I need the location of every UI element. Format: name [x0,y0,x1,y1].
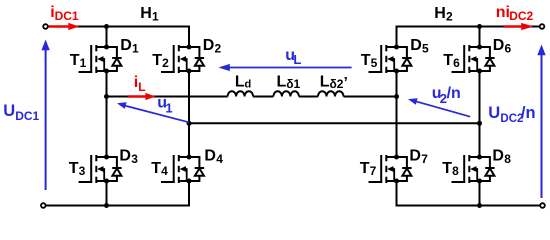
node T2 drain [187,45,192,50]
svg-text:T: T [442,160,452,177]
svg-text:DC2: DC2 [509,9,533,23]
transistor T5 [369,45,397,73]
svg-text:D: D [492,148,504,165]
node T8 drain [477,155,482,160]
terminal DC2 plus [540,24,545,29]
node H1 top leg1 junction [104,24,109,29]
diode D7 [397,157,412,181]
node T3 drain [104,155,109,160]
svg-text:1: 1 [165,100,172,115]
svg-text:1: 1 [152,10,159,24]
svg-text:4: 4 [161,164,168,178]
svg-text:T: T [70,52,80,69]
svg-text:δ2: δ2 [330,77,344,91]
node T1 drain [104,45,109,50]
wire H2 leg1 middle [396,71,398,157]
diode D6 [480,47,495,71]
voltage arrow uL [230,67,352,69]
node T6 source [477,69,482,74]
voltage arrow u2n [417,102,471,117]
node T5 source [394,69,399,74]
svg-text:5: 5 [422,42,429,56]
svg-text:D: D [120,37,132,54]
node T8 source [477,179,482,184]
svg-text:T: T [360,160,370,177]
node H2 top leg2 junction [477,24,482,29]
svg-text:U: U [488,104,500,122]
wire H1 bottom rail [46,181,189,206]
svg-text:6: 6 [453,56,460,70]
current arrow iL [128,95,146,97]
svg-text:1: 1 [132,42,139,56]
svg-text:L: L [138,80,145,94]
transistor T7 [369,155,397,183]
node T6 drain [477,45,482,50]
transistor T4 [161,155,189,183]
svg-text:H: H [140,5,152,22]
svg-text:D: D [203,37,215,54]
diode D8 [480,157,495,181]
svg-text:D: D [409,148,421,165]
wire H1 leg1 middle [106,71,108,157]
node T2 source [187,69,192,74]
svg-text:DC1: DC1 [55,9,79,23]
svg-text:8: 8 [452,164,459,178]
voltage arrow UDC2n [541,54,543,198]
svg-text:T: T [152,52,162,69]
svg-text:7: 7 [370,164,377,178]
diode D1 [107,47,122,71]
svg-text:2: 2 [215,42,222,56]
svg-text:6: 6 [505,42,512,56]
transistor T8 [452,155,480,183]
transistor T2 [161,45,189,73]
svg-text:2: 2 [446,10,453,24]
svg-text:7: 7 [421,152,428,166]
wire H1 leg1 lower [106,181,108,206]
current arrow iDC1 [49,25,70,27]
wire H2 leg2 middle [479,71,481,157]
node D lower AC at H2 leg2 [477,121,482,126]
current arrow niDC2 [504,25,523,27]
svg-text:3: 3 [79,164,86,178]
wire H1 leg1 upper [106,27,108,48]
svg-text:L: L [235,74,245,91]
svg-text:’: ’ [344,74,348,91]
svg-text:T: T [443,52,453,69]
node B lower AC at H1 leg2 [187,121,192,126]
node H1 bottom leg1 junction [104,203,109,208]
svg-text:3: 3 [131,152,138,166]
terminal DC2 minus [540,203,545,208]
node T4 drain [187,155,192,160]
inductor Ldelta2p [318,91,344,96]
voltage arrow UDC1 [45,49,47,190]
node T7 drain [394,155,399,160]
svg-text:T: T [69,160,79,177]
wire AC upper link [107,96,228,98]
inductor Ld [228,91,254,96]
terminal DC1 plus [43,24,48,29]
diode D5 [397,47,412,71]
node T5 drain [394,45,399,50]
svg-text:L: L [293,52,301,67]
svg-text:1: 1 [80,56,87,70]
node A upper AC at H1 leg1 [104,94,109,99]
svg-text:2: 2 [162,56,169,70]
inductor Ldelta1 [273,91,299,96]
svg-text:L: L [320,74,330,91]
node H2 bottom leg2 junction [477,203,482,208]
svg-text:5: 5 [371,56,378,70]
svg-text:DC1: DC1 [15,109,39,123]
transistor T1 [79,45,107,73]
svg-text:D: D [204,148,216,165]
voltage arrow u1 [126,106,190,123]
node T3 source [104,179,109,184]
svg-text:L: L [277,74,287,91]
node C upper AC at H2 leg1 [394,94,399,99]
node T1 source [104,69,109,74]
svg-text:T: T [151,160,161,177]
svg-text:D: D [119,148,131,165]
svg-text:d: d [245,79,252,91]
terminal DC1 minus [41,203,46,208]
svg-text:H: H [434,5,446,22]
svg-text:/n: /n [521,104,536,122]
wire H2 bottom rail [397,181,541,206]
wire H1 leg2 middle [188,71,190,157]
svg-text:δ1: δ1 [286,77,300,91]
wire H1 top rail [48,27,189,48]
svg-text:U: U [3,102,15,120]
wire H2 leg2 upper [479,27,481,48]
node T7 source [394,179,399,184]
svg-text:ni: ni [496,4,510,21]
wire H2 top rail [397,27,540,48]
diode D2 [189,47,204,71]
diode D4 [189,157,204,181]
svg-text:8: 8 [504,152,511,166]
svg-text:D: D [410,37,422,54]
transistor T6 [452,45,480,73]
diode D3 [107,157,122,181]
svg-text:T: T [361,52,371,69]
svg-text:4: 4 [216,152,223,166]
svg-text:D: D [493,37,505,54]
transistor T3 [79,155,107,183]
svg-text:/n: /n [447,85,461,102]
node T4 source [187,179,192,184]
wire AC lower link [189,122,480,124]
wire H2 leg2 lower [479,181,481,206]
